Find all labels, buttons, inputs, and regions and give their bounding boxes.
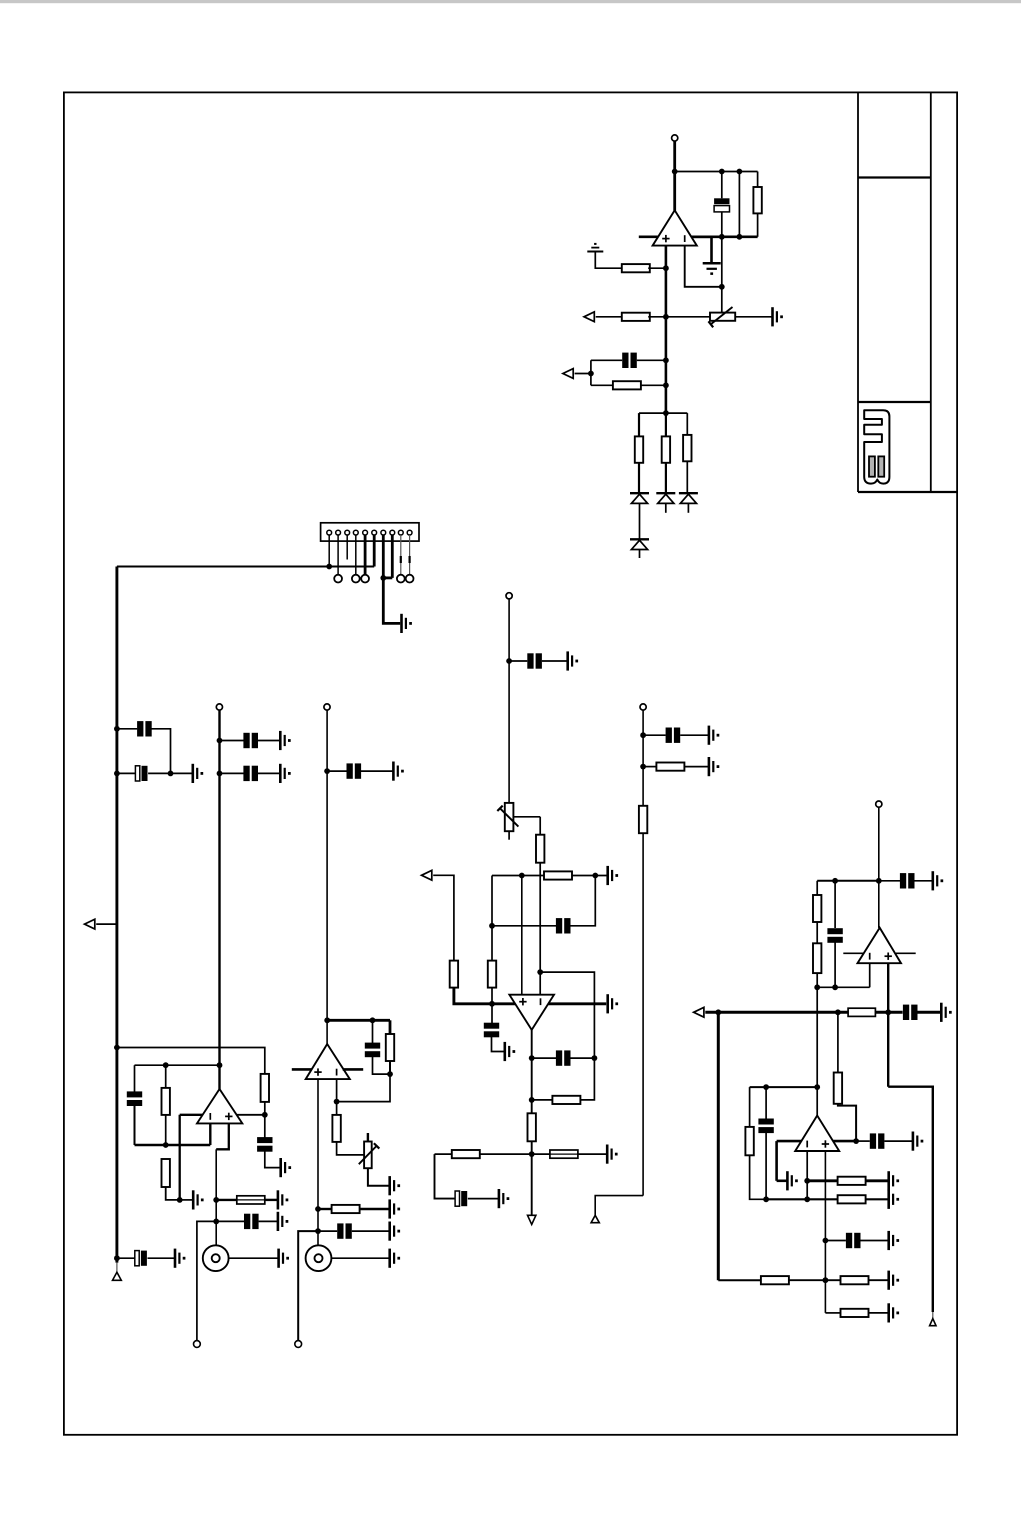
ground C22 (940, 1003, 943, 1022)
resistor R5 (635, 436, 643, 462)
wire A2 to node (575, 373, 591, 375)
wire C21 top lead (834, 881, 836, 928)
diode D4 (630, 538, 649, 540)
wire C6 to ground (258, 772, 280, 774)
ground R31 (887, 1303, 890, 1322)
wire to C15 (492, 925, 556, 927)
wire R18 riser (580, 1058, 594, 1100)
node cap C1 top (719, 169, 725, 175)
ground C5 (279, 731, 282, 750)
ground U1 (703, 262, 721, 265)
op-amp U5 (858, 928, 902, 964)
resistor R24 (813, 943, 821, 973)
wire C2 to rail (637, 359, 666, 361)
node C4 (168, 771, 174, 777)
node R21 (640, 764, 646, 770)
pad pin10 (406, 575, 414, 583)
wire F1 to ground (265, 1199, 278, 1201)
wire feedback row (135, 1144, 211, 1146)
wire U5 non-inverting input (887, 963, 889, 1086)
wire P2 to ground (368, 1168, 390, 1186)
wire main row (705, 1011, 902, 1014)
capacitor C11 electrolytic (135, 1251, 139, 1266)
trimmer P3 (505, 803, 514, 831)
wire to F2 (532, 1153, 550, 1155)
node C21 bottom (832, 984, 838, 990)
wire pin4 (355, 535, 357, 575)
wire R17 top lead (491, 926, 493, 961)
capacitor C19 (666, 728, 672, 743)
wire pin5 (364, 535, 367, 575)
wire U6 inverting input (806, 1151, 808, 1199)
wire A1 to R3 (596, 316, 622, 318)
node T2 cap1 (217, 738, 223, 744)
wire T2 cap2 branch (220, 772, 244, 774)
wire R29 to node (789, 1279, 826, 1281)
node fuse row (213, 1197, 219, 1203)
resistor R23 (813, 895, 821, 922)
node U4 plus drop (519, 873, 525, 879)
arrow left rail end (113, 1272, 122, 1280)
wire C24 bottom lead (765, 1132, 767, 1199)
wire U3 left stub (292, 1068, 312, 1071)
resistor R26 (745, 1127, 753, 1155)
wire minus row (817, 986, 870, 988)
capacitor C16 (484, 1023, 499, 1029)
wire U6 right stub (833, 1140, 856, 1143)
node R25 top (835, 1009, 841, 1015)
resistor R13 (332, 1205, 360, 1213)
wire leg2 (665, 413, 667, 436)
ground C10 (277, 1212, 280, 1231)
wire R25 to U6 cap node (838, 1104, 856, 1141)
jack J3 center (315, 1254, 323, 1262)
ground reference G0 (587, 251, 603, 253)
wire C24 top lead (765, 1087, 767, 1118)
wire R9 leads (165, 1065, 167, 1088)
wire rail corner row1280 (718, 1279, 761, 1281)
ground connector (400, 614, 403, 633)
arrow off-page A2 (563, 369, 573, 379)
wire R17 bottom lead (491, 988, 493, 1004)
wire P2 wiper stub (367, 1133, 369, 1142)
wire C22 to ground (918, 1011, 942, 1014)
wire C12 bottom lead (373, 1056, 391, 1074)
resistor R7 (683, 435, 691, 461)
page top scan bar (0, 0, 1021, 3)
node left rail elco branch (114, 771, 120, 777)
resistor R8 (261, 1074, 269, 1102)
pad test point ch1 (194, 1341, 201, 1348)
wire C12 top lead (372, 1020, 374, 1044)
jack J2 outer (203, 1245, 229, 1271)
terminal T3 (324, 704, 330, 710)
wire row880 left (817, 880, 879, 882)
wire C4 to ground (148, 772, 193, 774)
ground C6 (279, 764, 282, 783)
pad pin5 (361, 575, 369, 583)
resistor R29 (761, 1276, 789, 1284)
capacitor C18 electrolytic (455, 1191, 459, 1206)
wire to C17 (532, 1057, 556, 1059)
ground C14 (566, 651, 569, 670)
connector J1 pin 9 (398, 530, 403, 535)
resistor R30 (841, 1276, 869, 1284)
wire row1180 (807, 1179, 837, 1182)
wire C19 to ground (680, 734, 709, 736)
resistor R1 (753, 187, 761, 213)
wire C23 to ground (884, 1140, 913, 1142)
node T4 row (876, 878, 882, 884)
node C14 (506, 658, 512, 664)
resistor R25 (834, 1073, 842, 1104)
capacitor C9 (127, 1091, 142, 1097)
wire R26 bottom corner (750, 1155, 767, 1199)
node U3 inverting (334, 1099, 340, 1105)
wire pin1 (328, 535, 330, 567)
connector J1 pin 6 (372, 530, 377, 535)
wire divider bar (639, 412, 687, 414)
wire U2 left stub (180, 1114, 203, 1116)
fuse F1 (237, 1196, 265, 1204)
ground U4 right (606, 994, 609, 1013)
wire C11 to ground (148, 1257, 176, 1259)
wire C15 riser (570, 876, 595, 926)
wire A4 to R16 (433, 875, 454, 960)
wire R2 to node (648, 267, 666, 269)
wire R11 bottom lead (389, 1061, 391, 1074)
wire C1 leads (721, 172, 723, 199)
wire pin7-pin8 link (383, 577, 392, 580)
wire U3 right stub (343, 1068, 364, 1071)
wire U2 inverting input (209, 1123, 211, 1145)
wire P3 wiper (513, 816, 540, 818)
resistor R20 (452, 1150, 480, 1158)
wire C3 to corner (152, 729, 171, 774)
resistor R9 (162, 1088, 170, 1115)
wire U4 right stub (548, 1002, 606, 1005)
node output U1 (672, 169, 678, 175)
connector J1 pin 1 (327, 530, 332, 535)
connector J1 body (321, 523, 419, 541)
wire U6 non-inverting input (824, 1151, 826, 1313)
wire shield loop ch1 (197, 1221, 216, 1340)
wire P1 to ground (735, 316, 772, 318)
wire node to ground (180, 1199, 194, 1201)
wire C13 to ground (352, 1230, 390, 1232)
node U2 right stub (262, 1112, 268, 1118)
wire F2 to ground (578, 1153, 607, 1155)
node C21 top (832, 878, 838, 884)
node feedback (719, 284, 725, 290)
wire rail elco row (117, 1257, 135, 1259)
wire row1312 (825, 1312, 840, 1314)
wire D4 tail (639, 550, 641, 559)
wire T6 rail (642, 710, 644, 1196)
wire D3 tail (687, 503, 689, 512)
node T2 cap2 (217, 771, 223, 777)
node cap row ch1 (213, 1219, 219, 1225)
ground C11 (174, 1249, 177, 1268)
wire U1 left stub (639, 236, 658, 239)
capacitor C23 (870, 1133, 876, 1148)
resistor R21 (656, 763, 684, 771)
resistor R16 (450, 961, 458, 988)
wire R8 to node (264, 1102, 266, 1115)
node R10 (177, 1197, 183, 1203)
wire U4 plus drop (521, 876, 523, 995)
resistor R17 (488, 961, 496, 988)
capacitor C3 (137, 721, 143, 736)
capacitor C20 (900, 873, 906, 888)
wire pin10 (409, 535, 411, 575)
wire to R21 (643, 766, 656, 768)
border frame (64, 92, 957, 1434)
wire to C23 (856, 1140, 870, 1142)
node C15 row (489, 923, 495, 929)
wire R26 top lead (749, 1087, 751, 1127)
wire C10 to ground (259, 1220, 278, 1222)
capacitor C13 (337, 1223, 343, 1238)
ground C13 (388, 1222, 391, 1241)
wire P3 bottom stub (508, 831, 510, 840)
arrow off-page A4 (422, 870, 432, 880)
ground R21 (708, 757, 711, 776)
ground P2 (388, 1176, 391, 1195)
terminal T5 (506, 593, 512, 599)
arrow T6 end (591, 1215, 599, 1222)
wire C21 bottom lead (834, 942, 836, 988)
node minus row right (814, 984, 820, 990)
wire branch vertical (590, 360, 592, 385)
node C24 bottom (763, 1196, 769, 1202)
pad pin9 (397, 575, 405, 583)
node fb cap (529, 1055, 535, 1061)
ground R30 (887, 1271, 890, 1290)
wire pin7 (382, 535, 385, 578)
title block left edge (857, 92, 859, 492)
wire R14 down to U4 minus (539, 863, 541, 995)
wire C16 to ground (492, 1036, 505, 1051)
wire D2 tail (665, 503, 667, 512)
wire U1 non-inverting rail (665, 246, 668, 414)
diode D1 (630, 492, 649, 494)
wire leg3 (686, 413, 688, 435)
pad test point ch2 (295, 1341, 302, 1348)
wire R30 to ground (869, 1279, 889, 1281)
op-amp U6 (795, 1116, 839, 1152)
ground R28 (887, 1190, 890, 1209)
wire feedback top rail (675, 171, 758, 173)
wire R24 down (816, 973, 818, 1115)
capacitor C10 (244, 1214, 250, 1229)
fuse F2 (550, 1150, 578, 1158)
wire T2 rail (218, 710, 220, 1089)
op-amp U4 (509, 995, 554, 1030)
wire D1 to D4 (639, 503, 641, 539)
wire R4 to rail (641, 384, 666, 386)
wire R12 to trimmer P2 (337, 1142, 365, 1155)
node U6 rail (814, 1084, 820, 1090)
capacitor C22 (903, 1005, 909, 1020)
wire to R4 (591, 384, 613, 386)
node out row (529, 1151, 535, 1157)
resistor R10 (162, 1159, 170, 1187)
wire cap branch (117, 728, 137, 730)
wire pin9 (400, 535, 402, 575)
wire to R13 (318, 1208, 332, 1210)
wire C20 to ground (915, 880, 933, 882)
resistor R15 (544, 871, 572, 879)
ground R15 (606, 866, 609, 885)
wire feedback bottom rail (693, 236, 758, 239)
connector J1 pin 10 (407, 530, 412, 535)
ground C4 (192, 764, 195, 783)
node C25 row (823, 1238, 829, 1244)
op-amp U3 (306, 1044, 350, 1079)
node C17 right (592, 1055, 598, 1061)
ground C20 (931, 871, 934, 890)
wire T1 to U1 output (673, 141, 676, 210)
wire stub to ground (777, 1180, 788, 1183)
connector J1 pin 5 (363, 530, 368, 535)
ground R13 (388, 1199, 391, 1218)
node fb res (529, 1097, 535, 1103)
wire pin8 (391, 535, 394, 578)
wire R13 to ground (360, 1208, 390, 1210)
wire R27 to ground (866, 1179, 889, 1182)
ground F2 (606, 1145, 609, 1164)
wire to fuse F1 (216, 1199, 237, 1201)
wire U5 left stub (843, 952, 864, 954)
wire T5 rail (508, 599, 510, 803)
resistor R22 (639, 806, 647, 833)
wire U5 right stub (896, 952, 916, 954)
wire row875 corner down (491, 876, 493, 926)
ground R10 (192, 1190, 195, 1209)
wire C8 to ground (265, 1151, 281, 1168)
resistor R19 (528, 1113, 536, 1141)
capacitor C5 (243, 733, 249, 748)
wire row880 right (879, 880, 900, 882)
wire J3 to ground (331, 1257, 389, 1259)
node pin1 bus (326, 564, 332, 570)
wire to C16 (491, 1004, 493, 1024)
wire T3 cap branch (327, 770, 347, 772)
jack J3 outer (306, 1245, 332, 1271)
wire out row drop (435, 1154, 456, 1199)
capacitor C7 (347, 763, 353, 778)
wire wiper to R14 (539, 817, 541, 835)
node left rail cap branch (114, 726, 120, 732)
wire shield loop ch2 (298, 1231, 318, 1340)
node R9 top (163, 1062, 169, 1068)
capacitor C25 (846, 1233, 852, 1248)
wire to C8 (264, 1115, 266, 1138)
node left rail elco2 (114, 1255, 120, 1261)
wire to C9 (134, 1065, 136, 1092)
ground C8 (279, 1158, 282, 1177)
wire out row left (435, 1153, 532, 1155)
node C12 top (370, 1017, 376, 1023)
wire right rail tail (932, 1312, 934, 1318)
arrow off-page A3 (85, 919, 95, 929)
node R4 (663, 382, 669, 388)
node row1180 (804, 1178, 810, 1184)
ground C18 (498, 1189, 501, 1208)
capacitor C6 (243, 766, 249, 781)
wire bus pin1-pin6 (117, 566, 374, 568)
wire R16 to U4 row (454, 988, 516, 1004)
jack J2 center (212, 1254, 220, 1262)
node main row (885, 1009, 891, 1015)
terminal T1 (672, 135, 678, 141)
connector J1 pin 4 (353, 530, 358, 535)
node left rail to U2 (114, 1045, 120, 1051)
wire R10 bottom (166, 1187, 180, 1200)
wire rail to R8 (117, 1048, 265, 1074)
wire left rail (115, 567, 118, 1263)
capacitor C24 (758, 1119, 773, 1125)
resistor R27 (838, 1177, 866, 1185)
ground C7 (392, 762, 395, 781)
wire U6 left stub drop (775, 1141, 778, 1181)
wire corner to right rail (888, 1087, 933, 1312)
wire C25 to ground (861, 1240, 889, 1242)
title block divider 1 (858, 176, 931, 178)
node jog (537, 969, 543, 975)
wire R6 to D2 (665, 463, 667, 493)
wire R23-R24 link (816, 922, 818, 943)
node C19 (640, 732, 646, 738)
wire R31 to ground (869, 1312, 889, 1314)
wire to C2 (591, 359, 622, 361)
node U6 right stub (853, 1138, 859, 1144)
wire U5 inverting input (869, 963, 871, 987)
op-amp U2 (197, 1089, 242, 1123)
node T3 cap (324, 768, 330, 774)
wire R5 to D1 (638, 463, 640, 493)
wire C9 down (134, 1105, 136, 1145)
wire U3 inverting input (336, 1079, 338, 1102)
terminal T4 (876, 801, 882, 807)
connector J1 pin 8 (390, 530, 395, 535)
resistor R32 (848, 1008, 875, 1016)
connector J1 pin 2 (336, 530, 341, 535)
wire C7 to ground (361, 770, 393, 772)
resistor R31 (841, 1309, 869, 1317)
wire pin2 (337, 535, 339, 575)
wire feedback to trimmer (721, 237, 723, 313)
trimmer P1 (710, 313, 735, 321)
ground U6 stub (786, 1171, 789, 1190)
terminal T2 (216, 704, 222, 710)
capacitor C14 (527, 653, 533, 668)
wire node to R30 (825, 1279, 840, 1281)
arrow off-page A1 (584, 312, 594, 322)
wire A3 to rail (96, 923, 117, 925)
wire row875 left (492, 875, 544, 877)
wire to C14 (509, 660, 527, 662)
capacitor C2 (622, 353, 628, 368)
ground J3 (388, 1249, 391, 1268)
wire to C19 (643, 734, 666, 736)
node link bottom (737, 234, 743, 240)
diode D2 (656, 492, 675, 494)
resistor R11 (386, 1034, 394, 1061)
resistor R28 (838, 1195, 866, 1203)
wire J2 to ground (229, 1257, 279, 1259)
